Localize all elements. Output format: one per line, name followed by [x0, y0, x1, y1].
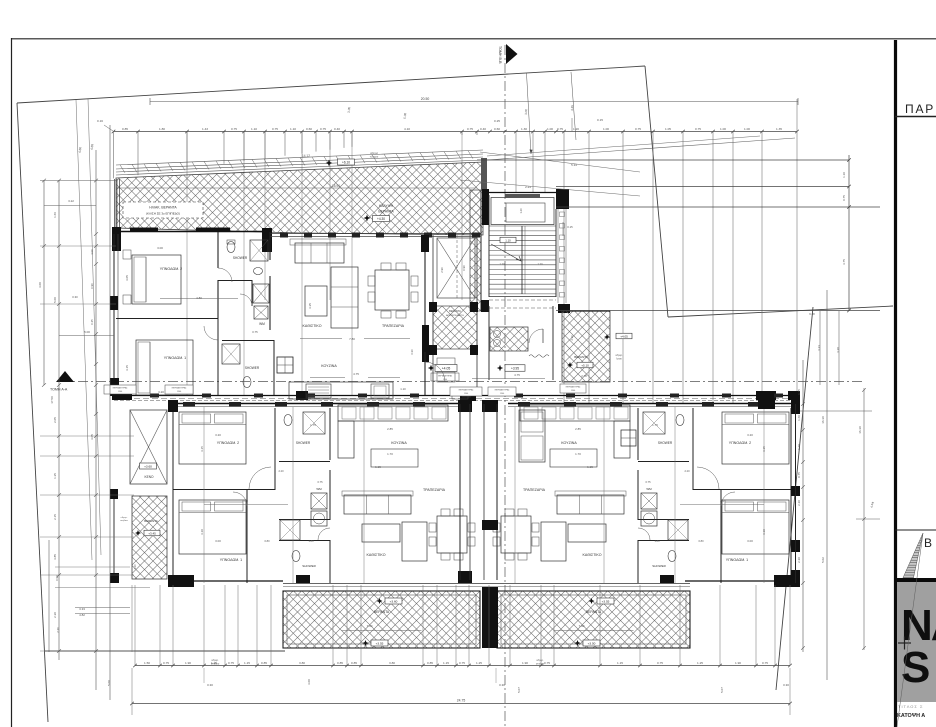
svg-text:16.30: 16.30 — [821, 416, 825, 424]
svg-text:4.00: 4.00 — [720, 499, 726, 503]
svg-text:ΘΕΡΜΑΝΤΗΡΑΣ: ΘΕΡΜΑΝΤΗΡΑΣ — [112, 387, 128, 390]
svg-text:0.15: 0.15 — [597, 118, 603, 122]
svg-text:7.80: 7.80 — [349, 337, 355, 341]
svg-text:1.20: 1.20 — [573, 127, 579, 131]
svg-text:3.00: 3.00 — [157, 246, 163, 250]
svg-text:3.35: 3.35 — [308, 303, 312, 309]
svg-text:0.75: 0.75 — [320, 127, 326, 131]
svg-text:1.00: 1.00 — [744, 127, 750, 131]
svg-text:ΤΟΜΗ Β-Β: ΤΟΜΗ Β-Β — [498, 46, 502, 64]
svg-text:4.75: 4.75 — [514, 373, 520, 377]
svg-text:1.20: 1.20 — [797, 444, 801, 450]
svg-text:ΥΠΝΟΔΩΜ. 1: ΥΠΝΟΔΩΜ. 1 — [726, 558, 748, 562]
svg-text:ΤΡΑΠΕΖΑΡΙΑ: ΤΡΑΠΕΖΑΡΙΑ — [382, 324, 405, 328]
svg-text:1.70: 1.70 — [387, 452, 393, 456]
svg-text:4.10: 4.10 — [404, 127, 410, 131]
svg-text:0.30: 0.30 — [499, 683, 505, 687]
svg-text:WM: WM — [646, 487, 652, 491]
svg-text:2.85: 2.85 — [387, 427, 393, 431]
svg-text:ΒΕΡΑΝΤΑ: ΒΕΡΑΝΤΑ — [449, 309, 461, 313]
svg-text:5.07: 5.07 — [720, 687, 724, 693]
svg-text:ΥΠΝΟΔΩΜ. 2: ΥΠΝΟΔΩΜ. 2 — [160, 267, 182, 271]
svg-text:3.80: 3.80 — [389, 661, 395, 665]
svg-text:ΒΕΡΑΝΤΑ: ΒΕΡΑΝΤΑ — [144, 519, 158, 523]
svg-text:υδρορ.: υδρορ. — [121, 517, 128, 519]
svg-text:1.25: 1.25 — [211, 661, 217, 665]
svg-text:0.75: 0.75 — [557, 127, 563, 131]
svg-text:3.00: 3.00 — [215, 539, 221, 543]
svg-text:1.15: 1.15 — [244, 661, 250, 665]
svg-text:ΚΟΥΖΙΝΑ: ΚΟΥΖΙΝΑ — [321, 364, 337, 368]
svg-text:2.10: 2.10 — [570, 335, 574, 341]
svg-text:150lt: 150lt — [177, 390, 182, 393]
svg-text:4.60: 4.60 — [78, 146, 83, 153]
svg-text:λουκι: λουκι — [616, 358, 622, 361]
svg-text:0.30: 0.30 — [410, 349, 414, 355]
svg-text:1.30: 1.30 — [521, 127, 527, 131]
svg-text:0.75: 0.75 — [252, 330, 258, 334]
svg-text:ΚΑΘΙΣΤΙΚΟ: ΚΑΘΙΣΤΙΚΟ — [302, 324, 321, 328]
svg-text:1.70: 1.70 — [575, 452, 581, 456]
svg-text:3.23: 3.23 — [817, 345, 821, 351]
svg-text:1.00: 1.00 — [603, 127, 609, 131]
svg-text:ΘΕΡΜΑΝΤΗΡΑΣ: ΘΕΡΜΑΝΤΗΡΑΣ — [494, 389, 510, 392]
svg-text:SHOWER: SHOWER — [302, 564, 316, 568]
svg-text:0.90: 0.90 — [462, 265, 466, 271]
svg-text:1.10: 1.10 — [251, 127, 257, 131]
svg-text:150lt: 150lt — [443, 378, 448, 381]
svg-text:0.75: 0.75 — [657, 661, 663, 665]
svg-text:3.00: 3.00 — [307, 679, 311, 685]
svg-text:5.00: 5.00 — [84, 330, 90, 334]
svg-text:0.30: 0.30 — [783, 683, 789, 687]
svg-text:0.80: 0.80 — [698, 539, 704, 543]
svg-text:ΒΕΡΑΝΤΑ: ΒΕΡΑΝΤΑ — [374, 610, 390, 614]
svg-text:3.00: 3.00 — [524, 109, 528, 115]
svg-text:4.4φ: 4.4φ — [870, 501, 875, 508]
svg-text:ΚΟΥΖΙΝΑ: ΚΟΥΖΙΝΑ — [561, 441, 577, 445]
svg-text:0.25: 0.25 — [494, 119, 500, 123]
svg-text:5.02: 5.02 — [821, 557, 825, 563]
svg-text:SHOWER: SHOWER — [652, 564, 666, 568]
svg-text:3.80: 3.80 — [299, 661, 305, 665]
svg-text:SHOWER: SHOWER — [658, 441, 673, 445]
svg-text:1.75: 1.75 — [652, 423, 658, 427]
svg-text:0.40: 0.40 — [480, 127, 486, 131]
svg-text:ΤΡΑΠΕΖΑΡΙΑ: ΤΡΑΠΕΖΑΡΙΑ — [523, 488, 546, 492]
svg-text:+3.50: +3.50 — [588, 641, 596, 645]
svg-text:1.90: 1.90 — [185, 661, 191, 665]
svg-text:+3.60: +3.60 — [390, 599, 398, 603]
svg-text:ΚΑΘΙΣΤΙΚΟ: ΚΑΘΙΣΤΙΚΟ — [366, 553, 385, 557]
svg-text:+3.45: +3.45 — [148, 531, 156, 535]
svg-text:0.75: 0.75 — [317, 480, 323, 484]
svg-text:0.85: 0.85 — [261, 661, 267, 665]
svg-text:ΚΕΝΟ: ΚΕΝΟ — [144, 475, 154, 479]
svg-text:+6.10: +6.10 — [342, 160, 350, 164]
svg-text:2.78: 2.78 — [581, 374, 587, 378]
svg-text:1.35: 1.35 — [776, 127, 782, 131]
svg-text:1.80: 1.80 — [654, 539, 660, 543]
svg-text:1.66: 1.66 — [53, 212, 57, 218]
svg-text:WM: WM — [316, 487, 322, 491]
svg-text:ΚΑΛΥΨΗ: ΚΑΛΥΨΗ — [379, 204, 394, 208]
svg-text:ΒΕΡΑΝΤΑ: ΒΕΡΑΝΤΑ — [586, 610, 602, 614]
svg-text:4.00: 4.00 — [242, 499, 248, 503]
svg-text:150lt: 150lt — [571, 389, 576, 392]
svg-text:0.75: 0.75 — [842, 195, 846, 201]
svg-text:0.75: 0.75 — [228, 661, 234, 665]
svg-text:5.00: 5.00 — [53, 297, 57, 303]
svg-text:1.20: 1.20 — [133, 564, 137, 570]
svg-text:1.10: 1.10 — [400, 387, 406, 391]
svg-text:1.90: 1.90 — [735, 661, 741, 665]
svg-text:150lt: 150lt — [500, 392, 505, 395]
svg-text:2.20: 2.20 — [278, 469, 284, 473]
svg-text:0.75: 0.75 — [695, 127, 701, 131]
svg-text:17.50: 17.50 — [50, 396, 54, 404]
svg-text:1.20: 1.20 — [499, 262, 505, 266]
svg-text:2.90: 2.90 — [440, 267, 444, 273]
svg-text:ΤΡΑΠΕΖΑΡΙΑ: ΤΡΑΠΕΖΑΡΙΑ — [423, 488, 446, 492]
svg-text:WM: WM — [259, 322, 265, 326]
svg-text:2.85: 2.85 — [575, 427, 581, 431]
svg-text:3.00: 3.00 — [747, 539, 753, 543]
svg-text:+3.95: +3.95 — [511, 366, 519, 370]
svg-text:0.75: 0.75 — [797, 472, 801, 478]
svg-text:7.90: 7.90 — [367, 624, 373, 628]
svg-text:ΘΕΡΜΑΝΤΗΡΑΣ: ΘΕΡΜΑΝΤΗΡΑΣ — [458, 389, 474, 392]
svg-text:5.00: 5.00 — [107, 680, 111, 686]
svg-text:0.85: 0.85 — [337, 661, 343, 665]
svg-text:1.75: 1.75 — [310, 423, 316, 427]
svg-text:0.85: 0.85 — [351, 661, 357, 665]
svg-text:ΘΕΡΜΑΝΤΗΡΑΣ: ΘΕΡΜΑΝΤΗΡΑΣ — [565, 386, 581, 389]
svg-text:0.85: 0.85 — [122, 127, 128, 131]
svg-text:0.30: 0.30 — [72, 295, 78, 299]
svg-text:1.20: 1.20 — [519, 208, 523, 214]
svg-text:0.30: 0.30 — [207, 683, 213, 687]
svg-text:1.60: 1.60 — [797, 415, 801, 421]
svg-text:ΚΑΤΟΨΗ Α: ΚΑΤΟΨΗ Α — [897, 713, 925, 719]
svg-text:0.75: 0.75 — [762, 661, 768, 665]
svg-text:0.16: 0.16 — [97, 119, 103, 123]
svg-text:3.05: 3.05 — [347, 106, 352, 113]
svg-text:SHOWER: SHOWER — [296, 441, 311, 445]
svg-text:0.75: 0.75 — [645, 480, 651, 484]
svg-text:3.20: 3.20 — [747, 433, 753, 437]
svg-text:3.20: 3.20 — [836, 347, 840, 353]
svg-text:3.75: 3.75 — [842, 259, 846, 265]
svg-text:ΒΕΡΑΝΤΑ: ΒΕΡΑΝΤΑ — [574, 355, 588, 359]
svg-text:ΘΕΡΜΑΝΤΗΡΑΣ: ΘΕΡΜΑΝΤΗΡΑΣ — [171, 387, 187, 390]
svg-text:1.25: 1.25 — [697, 661, 703, 665]
svg-text:2.23: 2.23 — [525, 185, 531, 189]
svg-text:ΑΠΡΟΣΠΕΛΑΣΤΗ: ΑΠΡΟΣΠΕΛΑΣΤΗ — [446, 314, 464, 317]
svg-text:1.35: 1.35 — [53, 473, 57, 479]
svg-text:0.90: 0.90 — [55, 575, 59, 581]
svg-text:2.30: 2.30 — [797, 557, 801, 563]
svg-text:SHOWER: SHOWER — [245, 366, 260, 370]
svg-text:1.50: 1.50 — [144, 661, 150, 665]
svg-text:+3.60: +3.60 — [144, 464, 152, 468]
svg-text:4.35: 4.35 — [570, 105, 574, 111]
svg-text:0.75: 0.75 — [163, 661, 169, 665]
svg-text:15.90: 15.90 — [332, 184, 340, 188]
svg-text:πλεγμα: πλεγμα — [370, 155, 379, 159]
svg-text:ΥΠΝΟΔΩΜ. 1: ΥΠΝΟΔΩΜ. 1 — [164, 356, 186, 360]
svg-text:ΥΠΝΟΔΩΜ. 2: ΥΠΝΟΔΩΜ. 2 — [217, 441, 239, 445]
svg-text:5.00: 5.00 — [403, 112, 408, 119]
svg-text:στηθαιο: στηθαιο — [120, 520, 128, 522]
svg-text:1.10: 1.10 — [842, 172, 846, 178]
svg-text:3.05: 3.05 — [90, 434, 94, 440]
svg-text:3.05: 3.05 — [125, 275, 129, 281]
svg-text:SHOWER: SHOWER — [233, 256, 248, 260]
svg-text:0.15: 0.15 — [567, 225, 573, 229]
svg-text:24.75: 24.75 — [457, 699, 466, 703]
svg-text:0.80: 0.80 — [264, 539, 270, 543]
svg-text:ΠΑΡ: ΠΑΡ — [905, 102, 935, 116]
svg-text:3.20: 3.20 — [158, 390, 164, 394]
svg-text:0.60: 0.60 — [494, 127, 500, 131]
svg-text:3.85: 3.85 — [53, 554, 57, 560]
svg-text:0.85: 0.85 — [427, 661, 433, 665]
svg-text:0.75: 0.75 — [272, 127, 278, 131]
svg-text:+4.05: +4.05 — [620, 334, 628, 338]
svg-text:1.00: 1.00 — [720, 127, 726, 131]
svg-text:ΘΕΡΜΑΝΤΗΡΑΣ: ΘΕΡΜΑΝΤΗΡΑΣ — [438, 375, 453, 378]
svg-text:+4.05: +4.05 — [442, 366, 451, 370]
svg-text:1.20: 1.20 — [537, 262, 543, 266]
svg-text:ΚΑΘΙΣΤΙΚΟ: ΚΑΘΙΣΤΙΚΟ — [582, 553, 601, 557]
svg-text:1.00: 1.00 — [547, 127, 553, 131]
svg-text:ΗΛΙΑΚ. ΒΕΡΑΝΤΑ: ΗΛΙΑΚ. ΒΕΡΑΝΤΑ — [149, 206, 177, 210]
svg-text:150lt: 150lt — [464, 392, 469, 395]
svg-text:0.75: 0.75 — [231, 127, 237, 131]
svg-text:1.05: 1.05 — [665, 127, 671, 131]
svg-text:ΤΙΤΛΟΣ Σ: ΤΙΤΛΟΣ Σ — [898, 704, 923, 709]
svg-text:3.15: 3.15 — [200, 446, 204, 452]
svg-text:2.30: 2.30 — [53, 612, 57, 618]
svg-text:4.80: 4.80 — [196, 296, 202, 300]
svg-text:1.10: 1.10 — [290, 127, 296, 131]
svg-text:1.90: 1.90 — [522, 661, 528, 665]
svg-text:3.20: 3.20 — [215, 433, 221, 437]
svg-text:2.05: 2.05 — [53, 417, 57, 423]
svg-text:3.22: 3.22 — [68, 199, 74, 203]
svg-text:0.75: 0.75 — [635, 127, 641, 131]
svg-text:ΚΟΥΖΙΝΑ: ΚΟΥΖΙΝΑ — [391, 441, 407, 445]
svg-text:1.00: 1.00 — [90, 249, 94, 255]
svg-text:+3.55: +3.55 — [602, 599, 610, 603]
svg-text:2.15: 2.15 — [53, 514, 57, 520]
svg-text:(ΚΛΙΣΗ ΣΕ 3ο ΕΠΙΠΕΔΟ): (ΚΛΙΣΗ ΣΕ 3ο ΕΠΙΠΕΔΟ) — [146, 212, 180, 216]
svg-text:14.12: 14.12 — [302, 154, 310, 158]
svg-text:1.10: 1.10 — [505, 238, 511, 242]
svg-text:Β: Β — [924, 536, 932, 550]
svg-text:1.15: 1.15 — [587, 465, 593, 469]
svg-text:3.10: 3.10 — [200, 529, 204, 535]
svg-text:20.50: 20.50 — [421, 97, 430, 101]
svg-text:4.65: 4.65 — [90, 143, 95, 150]
svg-text:ΥΠΝΟΔΩΜ. 2: ΥΠΝΟΔΩΜ. 2 — [729, 441, 751, 445]
svg-text:5.07: 5.07 — [517, 687, 521, 693]
svg-text:1.15: 1.15 — [617, 661, 623, 665]
svg-text:+3.55: +3.55 — [376, 641, 384, 645]
svg-text:0.35: 0.35 — [90, 319, 94, 325]
svg-text:7.90: 7.90 — [579, 624, 585, 628]
svg-text:0.60: 0.60 — [306, 127, 312, 131]
svg-text:ΥΠΝΟΔΩΜ. 1: ΥΠΝΟΔΩΜ. 1 — [220, 558, 242, 562]
svg-text:0.75: 0.75 — [544, 661, 550, 665]
svg-text:2.20: 2.20 — [684, 469, 690, 473]
svg-text:150lt: 150lt — [118, 390, 123, 393]
svg-text:ΒΕΡΑΝΤΑ: ΒΕΡΑΝΤΑ — [378, 210, 394, 214]
svg-text:1.25: 1.25 — [476, 661, 482, 665]
svg-text:3.15: 3.15 — [125, 365, 129, 371]
svg-text:+5.10: +5.10 — [581, 363, 589, 367]
svg-text:1.75: 1.75 — [797, 389, 801, 395]
svg-text:3.00: 3.00 — [38, 282, 42, 288]
svg-text:2.20: 2.20 — [797, 500, 801, 506]
svg-text:1.80: 1.80 — [308, 539, 314, 543]
svg-text:1.15: 1.15 — [443, 661, 449, 665]
svg-text:0.40: 0.40 — [334, 127, 340, 131]
svg-text:+4.30: +4.30 — [377, 217, 385, 221]
svg-text:6.38: 6.38 — [809, 312, 815, 316]
svg-text:1.15: 1.15 — [375, 465, 381, 469]
svg-text:2.30: 2.30 — [56, 627, 60, 633]
svg-text:16.30: 16.30 — [858, 426, 862, 434]
svg-text:1.80: 1.80 — [159, 127, 165, 131]
svg-text:S: S — [901, 643, 930, 692]
svg-text:4.75: 4.75 — [353, 372, 359, 376]
svg-text:0.75: 0.75 — [467, 127, 473, 131]
svg-text:0.90: 0.90 — [90, 283, 94, 289]
svg-text:1.43: 1.43 — [202, 127, 208, 131]
svg-text:σιδηρα: σιδηρα — [370, 151, 379, 155]
svg-text:0.75: 0.75 — [459, 661, 465, 665]
